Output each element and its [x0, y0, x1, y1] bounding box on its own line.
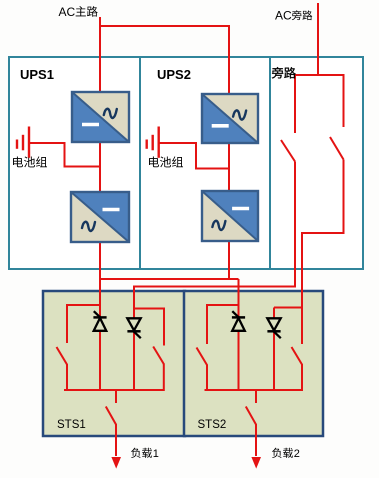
svg-text:AC: AC: [59, 5, 76, 19]
svg-text:STS2: STS2: [198, 419, 227, 431]
svg-text:UPS1: UPS1: [20, 67, 54, 82]
svg-text:UPS2: UPS2: [157, 67, 191, 82]
svg-text:2: 2: [294, 448, 300, 460]
svg-text:AC: AC: [275, 9, 292, 23]
svg-text:STS1: STS1: [57, 419, 86, 431]
svg-text:1: 1: [153, 448, 159, 460]
